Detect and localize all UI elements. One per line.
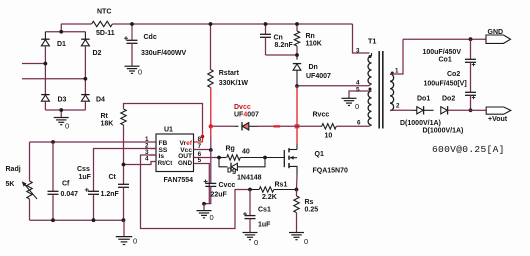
svg-text:5: 5	[356, 87, 360, 94]
svg-text:Css: Css	[77, 166, 90, 173]
svg-text:0: 0	[304, 237, 308, 246]
svg-text:Dg: Dg	[227, 168, 236, 175]
svg-text:Dn: Dn	[309, 64, 318, 71]
svg-text:D2: D2	[93, 50, 102, 57]
svg-text:Cvcc: Cvcc	[219, 182, 236, 189]
svg-text:0: 0	[133, 237, 137, 246]
svg-text:3: 3	[356, 48, 360, 55]
svg-text:Ct: Ct	[109, 174, 117, 181]
svg-text:Co1: Co1	[439, 57, 452, 64]
svg-text:D(1000V/1A): D(1000V/1A)	[400, 120, 441, 127]
svg-text:1: 1	[395, 68, 399, 75]
svg-text:10: 10	[325, 133, 333, 140]
svg-text:2.2K: 2.2K	[262, 194, 277, 201]
svg-text:Cn: Cn	[274, 35, 283, 42]
svg-text:100uF/450[V]: 100uF/450[V]	[424, 81, 467, 88]
svg-text:2: 2	[396, 103, 400, 110]
svg-text:GND: GND	[488, 29, 504, 36]
svg-text:U1: U1	[164, 127, 173, 134]
svg-text:8: 8	[198, 136, 202, 143]
svg-text:100uF/450V: 100uF/450V	[422, 49, 461, 56]
svg-text:D3: D3	[58, 97, 67, 104]
svg-text:Cf: Cf	[62, 181, 70, 188]
svg-text:Rn: Rn	[306, 33, 315, 40]
svg-text:Rg: Rg	[226, 146, 235, 153]
svg-text:330uF/400WV: 330uF/400WV	[141, 50, 186, 57]
svg-text:Rs: Rs	[305, 199, 314, 206]
svg-text:GND: GND	[178, 160, 192, 167]
svg-text:600V@0.25[A]: 600V@0.25[A]	[432, 144, 505, 155]
svg-text:UF4007: UF4007	[234, 112, 259, 119]
svg-text:D4: D4	[96, 97, 105, 104]
svg-text:UF4007: UF4007	[306, 73, 331, 80]
svg-text:40: 40	[242, 149, 250, 156]
svg-text:5: 5	[198, 157, 202, 164]
svg-text:0: 0	[65, 122, 69, 131]
svg-text:4: 4	[356, 79, 360, 86]
svg-text:18K: 18K	[101, 121, 114, 128]
svg-text:0: 0	[355, 102, 359, 111]
svg-text:8.2nF: 8.2nF	[275, 42, 294, 49]
svg-text:330K/1W: 330K/1W	[219, 80, 249, 87]
svg-text:0.047: 0.047	[61, 191, 79, 198]
svg-text:Do1: Do1	[417, 96, 430, 103]
svg-text:FAN7554: FAN7554	[164, 177, 194, 184]
svg-text:Co2: Co2	[447, 71, 460, 78]
svg-text:FQA15N70: FQA15N70	[313, 168, 349, 175]
svg-text:110K: 110K	[306, 41, 322, 48]
svg-text:Dvcc: Dvcc	[234, 104, 251, 111]
svg-text:Rs1: Rs1	[275, 182, 288, 189]
svg-text:5D-11: 5D-11	[96, 30, 115, 37]
svg-text:0.25: 0.25	[305, 207, 319, 214]
svg-text:1uF: 1uF	[258, 222, 271, 229]
svg-text:0: 0	[210, 213, 214, 222]
svg-text:NTC: NTC	[97, 9, 111, 16]
svg-text:5K: 5K	[6, 181, 15, 188]
svg-text:Cs1: Cs1	[258, 207, 271, 214]
svg-text:0: 0	[254, 238, 258, 247]
svg-text:4: 4	[145, 155, 149, 162]
svg-text:T1: T1	[368, 37, 376, 46]
svg-text:+Vout: +Vout	[488, 116, 508, 123]
svg-text:Q1: Q1	[315, 151, 324, 158]
svg-text:D(1000V/1A): D(1000V/1A)	[423, 128, 464, 135]
svg-text:0: 0	[138, 68, 142, 77]
svg-text:Radj: Radj	[6, 166, 21, 173]
svg-text:Do2: Do2	[442, 96, 455, 103]
svg-text:1.2nF: 1.2nF	[101, 191, 120, 198]
svg-text:7: 7	[198, 143, 202, 150]
svg-text:D1: D1	[57, 41, 66, 48]
svg-text:Rt/Ct: Rt/Ct	[158, 160, 173, 167]
svg-text:1N4148: 1N4148	[237, 175, 262, 182]
svg-text:6: 6	[357, 120, 361, 127]
svg-text:22uF: 22uF	[211, 192, 228, 199]
svg-text:Rstart: Rstart	[219, 70, 240, 77]
svg-text:1uF: 1uF	[79, 174, 92, 181]
svg-text:Rt: Rt	[101, 113, 109, 120]
svg-text:Rvcc: Rvcc	[313, 112, 330, 119]
svg-text:Cdc: Cdc	[144, 34, 157, 41]
